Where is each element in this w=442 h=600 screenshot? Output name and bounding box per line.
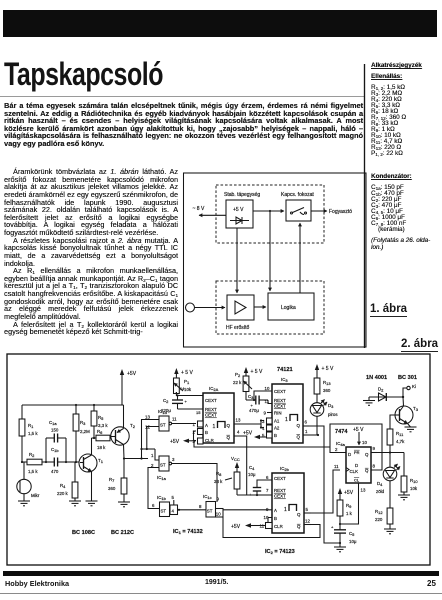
svg-text:6: 6	[152, 503, 155, 508]
svg-text:CEXT: CEXT	[274, 404, 286, 409]
svg-text:11: 11	[172, 417, 177, 422]
svg-text:22 k: 22 k	[233, 380, 242, 385]
ground below R12	[384, 529, 396, 534]
svg-text:ST: ST	[161, 509, 167, 514]
fig1 wire HF to Logika	[254, 306, 266, 308]
svg-text:+5V: +5V	[170, 439, 180, 445]
node T2 collector	[123, 457, 125, 459]
resistor R11	[387, 429, 405, 453]
monostable IC2b 74123 second half	[272, 466, 304, 533]
svg-text:T2: T2	[130, 423, 136, 429]
svg-text:PR: PR	[354, 450, 360, 455]
wire T3 emitter to ground	[408, 424, 411, 428]
IC1b output box pin 4	[170, 505, 178, 515]
pin 12 stub Qbar	[304, 524, 311, 526]
pin 1 stub Qbar	[303, 434, 318, 436]
svg-text:+ 5 V: + 5 V	[251, 369, 263, 375]
fig1 power supply box +5V with diode	[226, 200, 253, 228]
svg-text:IC2 = 74123: IC2 = 74123	[265, 549, 295, 555]
svg-text:IC2A: IC2A	[209, 386, 219, 392]
pin 4 stub Qbar	[234, 436, 247, 495]
svg-text:Logika: Logika	[281, 305, 296, 311]
svg-text:360: 360	[323, 388, 331, 393]
wire Q6 down and across to CL	[309, 426, 340, 543]
capacitor C2	[161, 396, 203, 414]
svg-text:Ki: Ki	[412, 384, 416, 389]
wire node to pin7	[257, 494, 272, 496]
capacitor C4	[248, 465, 272, 497]
+5V into B pin5	[243, 431, 267, 440]
fig1 HF amplifier box with triangle	[227, 295, 254, 320]
wire T2 emitter to +5V	[123, 405, 125, 429]
wire IC1a pin2 down to IC1b pin6	[148, 468, 159, 509]
fig1 wire +5V down to HF amp	[236, 228, 238, 293]
wire node to CL13	[340, 488, 359, 524]
svg-text:220μ: 220μ	[161, 408, 171, 413]
+5V arrow above R13	[315, 364, 334, 378]
transistor T3 BC301	[395, 406, 419, 424]
resistor R8	[214, 471, 258, 495]
fig1 Logika box	[268, 293, 314, 320]
svg-text:10: 10	[216, 512, 221, 517]
svg-text:D: D	[348, 452, 351, 457]
svg-text:B: B	[274, 433, 277, 438]
wire T2 collector down	[123, 445, 126, 459]
node C2 top	[176, 394, 178, 396]
fig1 switching stage box	[286, 200, 311, 221]
svg-text:Q: Q	[297, 423, 301, 428]
node D3/Q1	[317, 434, 319, 436]
wire bus to IC1a pin1	[155, 449, 159, 460]
wire node down to collector line	[141, 449, 143, 459]
wire IC1a output to IC1c pin9	[172, 464, 217, 503]
svg-text:+5V: +5V	[231, 524, 241, 530]
ground below C5	[334, 547, 346, 552]
pin 13 stub Q	[234, 423, 240, 425]
svg-text:CEXT: CEXT	[205, 413, 217, 418]
node C1 loop left	[45, 461, 47, 463]
ground before D2	[363, 401, 375, 406]
node 13 wire	[140, 448, 142, 450]
svg-text:R11: R11	[396, 431, 404, 437]
pin box 3 A1	[262, 418, 272, 424]
wire collector node to gates	[124, 458, 148, 460]
svg-text:3,3 k: 3,3 k	[98, 423, 108, 428]
svg-text:CEXT: CEXT	[274, 389, 286, 394]
svg-text:10μ: 10μ	[248, 472, 256, 477]
+5V arrow above R9	[338, 488, 354, 500]
svg-text:10k: 10k	[410, 486, 418, 491]
fig1 dashed box amplifier section	[216, 281, 324, 334]
node Q6 line at C5	[339, 542, 341, 544]
ground below T1	[86, 501, 98, 506]
svg-text:R3: R3	[80, 420, 86, 426]
node R5/R6/T1 collector	[93, 437, 95, 439]
svg-text:zöld: zöld	[376, 489, 385, 494]
svg-text:HF erősítő: HF erősítő	[226, 325, 250, 331]
D flipflop IC4a 7474	[346, 447, 371, 483]
transistor T2 BC212C	[111, 423, 136, 445]
svg-text:+5V: +5V	[243, 431, 253, 437]
svg-text:11: 11	[334, 464, 339, 469]
svg-text:R6: R6	[97, 429, 103, 435]
svg-text:+5V: +5V	[344, 490, 354, 496]
svg-text:ST: ST	[160, 463, 166, 468]
resistor R4	[57, 462, 78, 501]
diode D2 1N4001	[369, 387, 403, 402]
svg-text:13: 13	[236, 418, 241, 423]
wire D3 down to Qbar1 node	[316, 416, 318, 435]
pin box 2	[193, 429, 204, 435]
ground below R4	[69, 501, 81, 506]
svg-text:BC 212C: BC 212C	[111, 530, 134, 536]
svg-text:D: D	[355, 463, 358, 468]
schmitt gate IC1d	[158, 409, 172, 431]
svg-text:Q: Q	[297, 435, 301, 440]
pin box 5 B	[262, 432, 272, 438]
svg-text:6: 6	[266, 475, 269, 480]
svg-text:1: 1	[213, 424, 216, 430]
svg-text:360: 360	[108, 486, 116, 491]
svg-text:10: 10	[362, 440, 367, 445]
node R1/R2/mic	[21, 461, 23, 463]
svg-text:IC1c: IC1c	[203, 494, 212, 500]
svg-text:Kapcs. fokozat: Kapcs. fokozat	[281, 192, 314, 198]
svg-text:8: 8	[199, 504, 202, 509]
svg-text:Mikr: Mikr	[31, 493, 40, 498]
svg-text:1: 1	[285, 417, 288, 423]
svg-text:CL: CL	[354, 478, 360, 483]
monostable IC2A 74123 first half	[203, 386, 234, 443]
svg-text:18 k: 18 k	[97, 445, 106, 450]
pin 13 label and CL stub	[358, 483, 360, 488]
svg-text:13: 13	[145, 415, 150, 420]
svg-text:+: +	[331, 525, 334, 530]
svg-text:220: 220	[375, 517, 383, 522]
transistor T1 BC108C	[79, 454, 104, 472]
microphone Mikr	[17, 462, 40, 501]
node Q9/R11/D4/R10	[389, 451, 391, 453]
svg-text:CLR: CLR	[274, 524, 283, 529]
svg-text:REXT: REXT	[274, 488, 286, 493]
svg-text:15: 15	[196, 410, 201, 415]
resistor R3	[73, 405, 90, 462]
wire T3 collector up	[402, 397, 405, 406]
ground below R10	[398, 495, 410, 500]
potentiometer P2	[233, 372, 252, 400]
wire IC1d pin12 down to node	[147, 427, 159, 450]
svg-text:IC1a: IC1a	[157, 475, 167, 481]
IC1c output box pin 10	[216, 509, 224, 518]
sidebar rule	[364, 64, 366, 348]
svg-text:ST: ST	[207, 509, 213, 514]
svg-text:IC2b: IC2b	[280, 466, 290, 472]
wire +5V rail y447	[194, 441, 330, 447]
resistor R5	[91, 405, 108, 438]
pin box 3	[193, 438, 204, 444]
wire CEXT pin10 loop	[254, 391, 272, 400]
node R9/C5/CL	[339, 523, 341, 525]
svg-text:D4: D4	[377, 481, 383, 487]
svg-text:REXT: REXT	[205, 407, 217, 412]
svg-text:CEXT: CEXT	[274, 476, 286, 481]
fig1 wire supply to switch	[253, 210, 284, 212]
svg-text:C1b: C1b	[51, 447, 59, 453]
svg-text:R5: R5	[98, 415, 104, 421]
svg-text:1: 1	[151, 453, 154, 458]
node C1/R3 junction	[65, 461, 67, 463]
svg-text:10: 10	[265, 386, 270, 391]
capacitor C3	[246, 394, 272, 413]
svg-text:4: 4	[262, 426, 265, 431]
figure 1 frame	[184, 173, 367, 347]
svg-text:~ 8 V: ~ 8 V	[193, 206, 205, 212]
svg-text:9: 9	[217, 497, 220, 502]
node R3/R4/base	[75, 461, 77, 463]
schmitt gate IC1c	[203, 494, 216, 517]
svg-text:1 k: 1 k	[346, 511, 353, 516]
svg-text:IC1 = 74132: IC1 = 74132	[173, 529, 203, 535]
wire Q5 to 7474 CLK	[311, 470, 340, 513]
svg-text:Q: Q	[365, 468, 369, 473]
svg-text:D3: D3	[328, 403, 334, 409]
svg-text:CEXT: CEXT	[274, 494, 286, 499]
svg-text:R12: R12	[375, 509, 383, 515]
svg-text:3: 3	[172, 457, 175, 462]
figure 2 schematic frame	[7, 354, 430, 565]
svg-text:C4: C4	[249, 465, 255, 471]
svg-text:R10: R10	[410, 478, 418, 484]
svg-text:T1: T1	[98, 458, 104, 464]
svg-text:9: 9	[264, 411, 267, 416]
svg-text:10k: 10k	[184, 387, 192, 392]
svg-text:A: A	[274, 508, 277, 513]
svg-text:1N 4001: 1N 4001	[366, 375, 387, 381]
wire T1 collector up	[91, 438, 93, 455]
node C4 pin7	[256, 494, 258, 496]
7474 feedback loop wire	[330, 424, 382, 470]
wire B to CLR tie	[194, 431, 197, 441]
svg-text:4: 4	[237, 430, 240, 435]
svg-text:+: +	[185, 399, 188, 404]
+5V supply arrow top left	[120, 369, 137, 405]
svg-text:VCC: VCC	[231, 456, 240, 462]
resistor R13	[314, 378, 331, 403]
svg-text:R4: R4	[60, 483, 66, 489]
svg-text:1: 1	[284, 507, 287, 513]
fig1 microphone	[186, 303, 195, 312]
svg-text:BC 301: BC 301	[398, 375, 417, 381]
svg-text:piros: piros	[328, 412, 338, 417]
svg-text:+ 5 V: + 5 V	[322, 366, 334, 372]
pin box 11 CLR	[260, 523, 273, 529]
schmitt gate IC1a	[157, 456, 172, 481]
svg-text:1,5 k: 1,5 k	[28, 469, 38, 474]
svg-text:Q: Q	[227, 423, 231, 428]
wire T1 emitter down	[91, 472, 93, 502]
fig1 output Fogyasztó	[311, 210, 327, 212]
output terminal Ki	[403, 384, 416, 397]
svg-text:IC3: IC3	[281, 377, 288, 383]
+5V arrow above P2	[244, 367, 263, 376]
wire IC1c out to IC2b pin A9	[223, 509, 272, 511]
capacitor C1a	[46, 420, 66, 462]
node D2/T3/Ki	[402, 396, 404, 398]
svg-text:8: 8	[373, 464, 376, 469]
svg-text:4,7k: 4,7k	[396, 439, 405, 444]
pin 9 stub Q	[371, 452, 377, 454]
svg-text:220 k: 220 k	[57, 491, 69, 496]
LED D3 piros	[310, 400, 338, 418]
wire IC1d pin13 down to node	[142, 420, 160, 450]
svg-text:14: 14	[180, 386, 185, 391]
svg-text:T3: T3	[413, 406, 419, 412]
svg-text:C1a: C1a	[49, 420, 57, 426]
capacitor C5	[331, 524, 357, 547]
wire D4 to R12	[389, 481, 391, 508]
wire P1 to pin14	[176, 392, 203, 396]
svg-text:470: 470	[51, 469, 59, 474]
svg-text:Fogyasztó: Fogyasztó	[329, 209, 352, 215]
svg-text:7474: 7474	[335, 429, 348, 435]
pin 6 stub Q	[303, 425, 309, 427]
svg-text:1,5 k: 1,5 k	[28, 431, 38, 436]
resistor R9	[337, 500, 353, 524]
svg-text:D2: D2	[378, 387, 384, 393]
pin box 4 A2	[262, 425, 272, 431]
wire input bus y449	[142, 448, 156, 450]
ground T3 emitter	[405, 427, 417, 432]
potentiometer P1	[174, 378, 192, 394]
fig1 wire +5V down to Logika	[269, 210, 271, 212]
svg-text:IC1b: IC1b	[157, 495, 167, 501]
resistor R7	[108, 459, 127, 503]
svg-text:CEXT: CEXT	[205, 398, 217, 403]
pin box 1	[193, 421, 204, 427]
wire C1 to T1 base	[66, 461, 80, 463]
svg-text:R2: R2	[29, 452, 35, 458]
wire IC1d output to IC2A pin A	[172, 423, 196, 425]
wire T3 base to R11	[390, 415, 395, 429]
wire IC1b out to IC1c pin8	[178, 509, 207, 511]
svg-text:11: 11	[265, 399, 270, 404]
svg-text:R1: R1	[28, 423, 34, 429]
resistor R10	[401, 476, 418, 495]
node rail/R3	[75, 404, 77, 406]
node IC1b out	[178, 509, 180, 511]
svg-text:2,2M: 2,2M	[80, 429, 90, 434]
svg-text:RIN: RIN	[274, 411, 282, 416]
svg-text:CLR: CLR	[205, 438, 214, 443]
svg-text:13: 13	[361, 488, 366, 493]
wire Q13 to IC3 A1 A2	[240, 423, 261, 425]
resistor R2	[22, 452, 46, 474]
Vcc arrow	[231, 456, 240, 472]
fig1 dashed box power section	[216, 185, 324, 243]
svg-text:A2: A2	[274, 426, 280, 431]
node rail/R5	[93, 404, 95, 406]
svg-text:REXT: REXT	[274, 398, 286, 403]
svg-text:A: A	[205, 423, 208, 428]
svg-text:ST: ST	[160, 423, 166, 428]
svg-text:5: 5	[306, 507, 309, 512]
svg-text:B: B	[205, 430, 208, 435]
svg-text:C2: C2	[163, 398, 169, 404]
svg-text:+ 5 V: + 5 V	[181, 370, 193, 376]
wire Q12 feedback to IC1c	[223, 517, 320, 538]
svg-text:R13: R13	[323, 380, 331, 386]
svg-text:P1: P1	[184, 379, 190, 385]
LED D4 zold	[376, 453, 400, 495]
wire +5V rail	[22, 404, 122, 406]
svg-text:9: 9	[373, 446, 376, 451]
svg-text:5: 5	[172, 495, 175, 500]
monostable IC3 74121	[272, 367, 303, 443]
svg-text:B: B	[274, 516, 277, 521]
+5V into CLR pin11	[231, 523, 266, 530]
svg-text:33 k: 33 k	[214, 479, 223, 484]
svg-text:1: 1	[193, 422, 196, 427]
svg-text:CLK: CLK	[350, 469, 359, 474]
svg-text:150: 150	[51, 428, 59, 433]
+5V arrow to PR	[353, 427, 367, 445]
wire node to R10	[403, 453, 405, 477]
svg-text:Q: Q	[297, 512, 301, 517]
svg-text:Q: Q	[227, 435, 231, 440]
svg-text:Q: Q	[365, 452, 369, 457]
svg-text:1: 1	[305, 429, 308, 434]
wire Q9 to node	[377, 452, 404, 454]
svg-text:74121: 74121	[277, 367, 293, 373]
svg-text:6: 6	[305, 420, 308, 425]
svg-text:7: 7	[266, 488, 269, 493]
pin 5 stub Q	[304, 512, 311, 514]
svg-text:12: 12	[305, 519, 310, 524]
resistor R1	[19, 405, 38, 462]
schmitt gate IC1b	[157, 495, 170, 517]
svg-text:P2: P2	[235, 372, 241, 378]
capacitor C1b	[46, 447, 66, 474]
svg-text:2: 2	[335, 447, 338, 452]
+5V into CLR pin3	[170, 439, 196, 445]
ground below microphone	[18, 501, 30, 506]
svg-text:R7: R7	[109, 477, 115, 483]
svg-text:Stab. tápegység: Stab. tápegység	[224, 192, 260, 198]
node collector line	[140, 457, 142, 459]
svg-text:BC 108C: BC 108C	[72, 530, 95, 536]
svg-text:+5 V: +5 V	[233, 207, 244, 213]
svg-text:C3: C3	[248, 394, 254, 400]
node 12 wire	[146, 448, 148, 450]
resistor R12	[375, 508, 393, 529]
svg-text:C5: C5	[349, 531, 355, 537]
svg-text:+5V: +5V	[127, 371, 137, 377]
+5V arrow above P1	[174, 368, 193, 378]
resistor R6	[94, 429, 111, 450]
fig1 wire Logika up to switch	[299, 223, 301, 293]
svg-text:A1: A1	[274, 419, 280, 424]
svg-text:3: 3	[262, 419, 265, 424]
svg-text:Q: Q	[297, 524, 301, 529]
ground below R7	[118, 502, 130, 507]
svg-text:R9: R9	[346, 503, 352, 509]
svg-text:10μ: 10μ	[349, 539, 357, 544]
svg-text:470μ: 470μ	[249, 408, 259, 413]
pin 9 stub RIN	[267, 412, 272, 414]
